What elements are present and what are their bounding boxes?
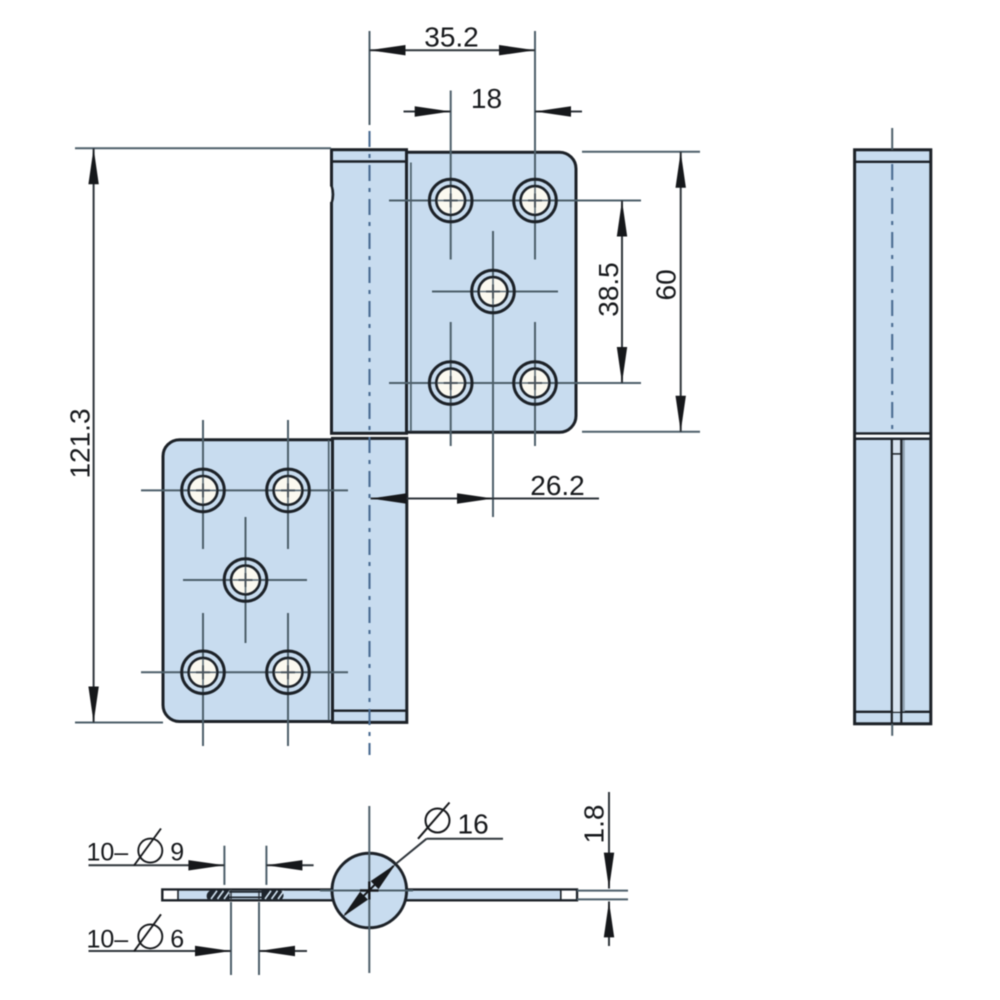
column left [202, 420, 204, 549]
dim 10-Ø6 [87, 902, 308, 975]
hole T3 centre cross [480, 278, 507, 305]
column middle [245, 517, 247, 643]
svg-text:38.5: 38.5 [593, 262, 624, 317]
svg-text:10–: 10– [87, 839, 129, 867]
svg-text:60: 60 [651, 269, 682, 300]
nick on left edge of top band [330, 186, 331, 202]
side view leaf edge strip [893, 440, 901, 712]
row line bottom [141, 671, 348, 673]
hole B4 [182, 651, 225, 694]
column middle [492, 231, 494, 517]
hole T4 centre cross [437, 370, 464, 397]
side view body [855, 150, 931, 724]
hole T5 [514, 362, 557, 405]
hole T1 centre cross [437, 187, 464, 214]
centreline stub above [891, 128, 893, 150]
hole B3 (middle) [224, 559, 267, 602]
dim 121.3 [65, 148, 332, 722]
bottom leaf plate [163, 440, 333, 722]
bottom band cap line [333, 710, 407, 712]
dim 60 [582, 152, 700, 432]
hinge centreline (front view, dashed) [368, 131, 370, 755]
knuckle vertical centreline [368, 806, 370, 973]
side view bottom cap line [855, 711, 931, 713]
dim 1.8 [577, 792, 628, 946]
hole centre crosses [190, 187, 549, 686]
holes bottom plate [182, 469, 310, 693]
hole T3 (middle) [472, 270, 515, 313]
hole T4 [429, 362, 472, 405]
side view leaf edge tick [892, 453, 901, 455]
hole B1 centre cross [190, 477, 217, 504]
hole T1 [429, 179, 472, 222]
row line middle [183, 579, 307, 581]
column left [450, 91, 452, 260]
hole B4 centre cross [190, 659, 217, 686]
svg-text:18: 18 [471, 83, 502, 114]
svg-text:26.2: 26.2 [530, 470, 585, 501]
bottom leaf fold line [328, 440, 330, 721]
hole B5 [267, 651, 310, 694]
bottom knuckle band [333, 438, 407, 722]
hatch left [207, 891, 230, 900]
diameter double arrow [345, 866, 394, 915]
hole B5 centre cross [275, 659, 302, 686]
top leaf fold line [410, 163, 412, 432]
centreline stub below [891, 724, 893, 736]
svg-text:9: 9 [170, 838, 184, 866]
svg-text:6: 6 [170, 925, 184, 953]
hole B2 centre cross [275, 477, 302, 504]
dim 38.5 [591, 201, 641, 384]
svg-text:16: 16 [458, 809, 489, 840]
knuckle horizontal centreline [320, 890, 413, 892]
side view centreline dashed (upper) [891, 164, 893, 431]
dim 35.2 [370, 22, 536, 125]
column right [287, 420, 289, 549]
hole T5 centre cross [522, 370, 549, 397]
hole B3 centre cross [232, 567, 259, 594]
hole centrelines, top plate [389, 31, 597, 517]
hole centrelines, bottom plate [141, 420, 348, 746]
Ø16 label [426, 809, 450, 833]
row line bottom [389, 382, 597, 384]
section bar [162, 890, 577, 901]
top leaf plate [407, 152, 577, 432]
top band cap line [332, 160, 407, 162]
hole T2 centre cross [522, 187, 549, 214]
bar right end cap [561, 891, 576, 899]
dim 18 [404, 83, 583, 117]
dim 10-Ø9 [87, 829, 314, 885]
bar left end cap [164, 891, 179, 899]
row line top [389, 200, 597, 202]
svg-text:121.3: 121.3 [65, 408, 96, 478]
hole B2 [267, 469, 310, 512]
column right [534, 31, 536, 260]
leader to Ø16 [396, 839, 427, 864]
side view top cap line [855, 161, 931, 163]
knuckle circle [332, 853, 407, 928]
centre cross [360, 889, 379, 891]
holes top plate [429, 179, 556, 404]
hole B1 [182, 469, 225, 512]
hole T2 [514, 179, 557, 222]
svg-text:1.8: 1.8 [579, 805, 610, 844]
side view knuckle junction [856, 435, 929, 438]
row line top [141, 489, 348, 491]
hole slot lines [229, 891, 262, 893]
svg-text:35.2: 35.2 [424, 22, 479, 53]
top knuckle band [332, 150, 407, 434]
svg-text:10–: 10– [87, 926, 129, 954]
hatch right [262, 891, 285, 900]
hole walls in section [230, 890, 232, 901]
row line middle [432, 291, 558, 293]
dim 26.2 [371, 470, 599, 504]
